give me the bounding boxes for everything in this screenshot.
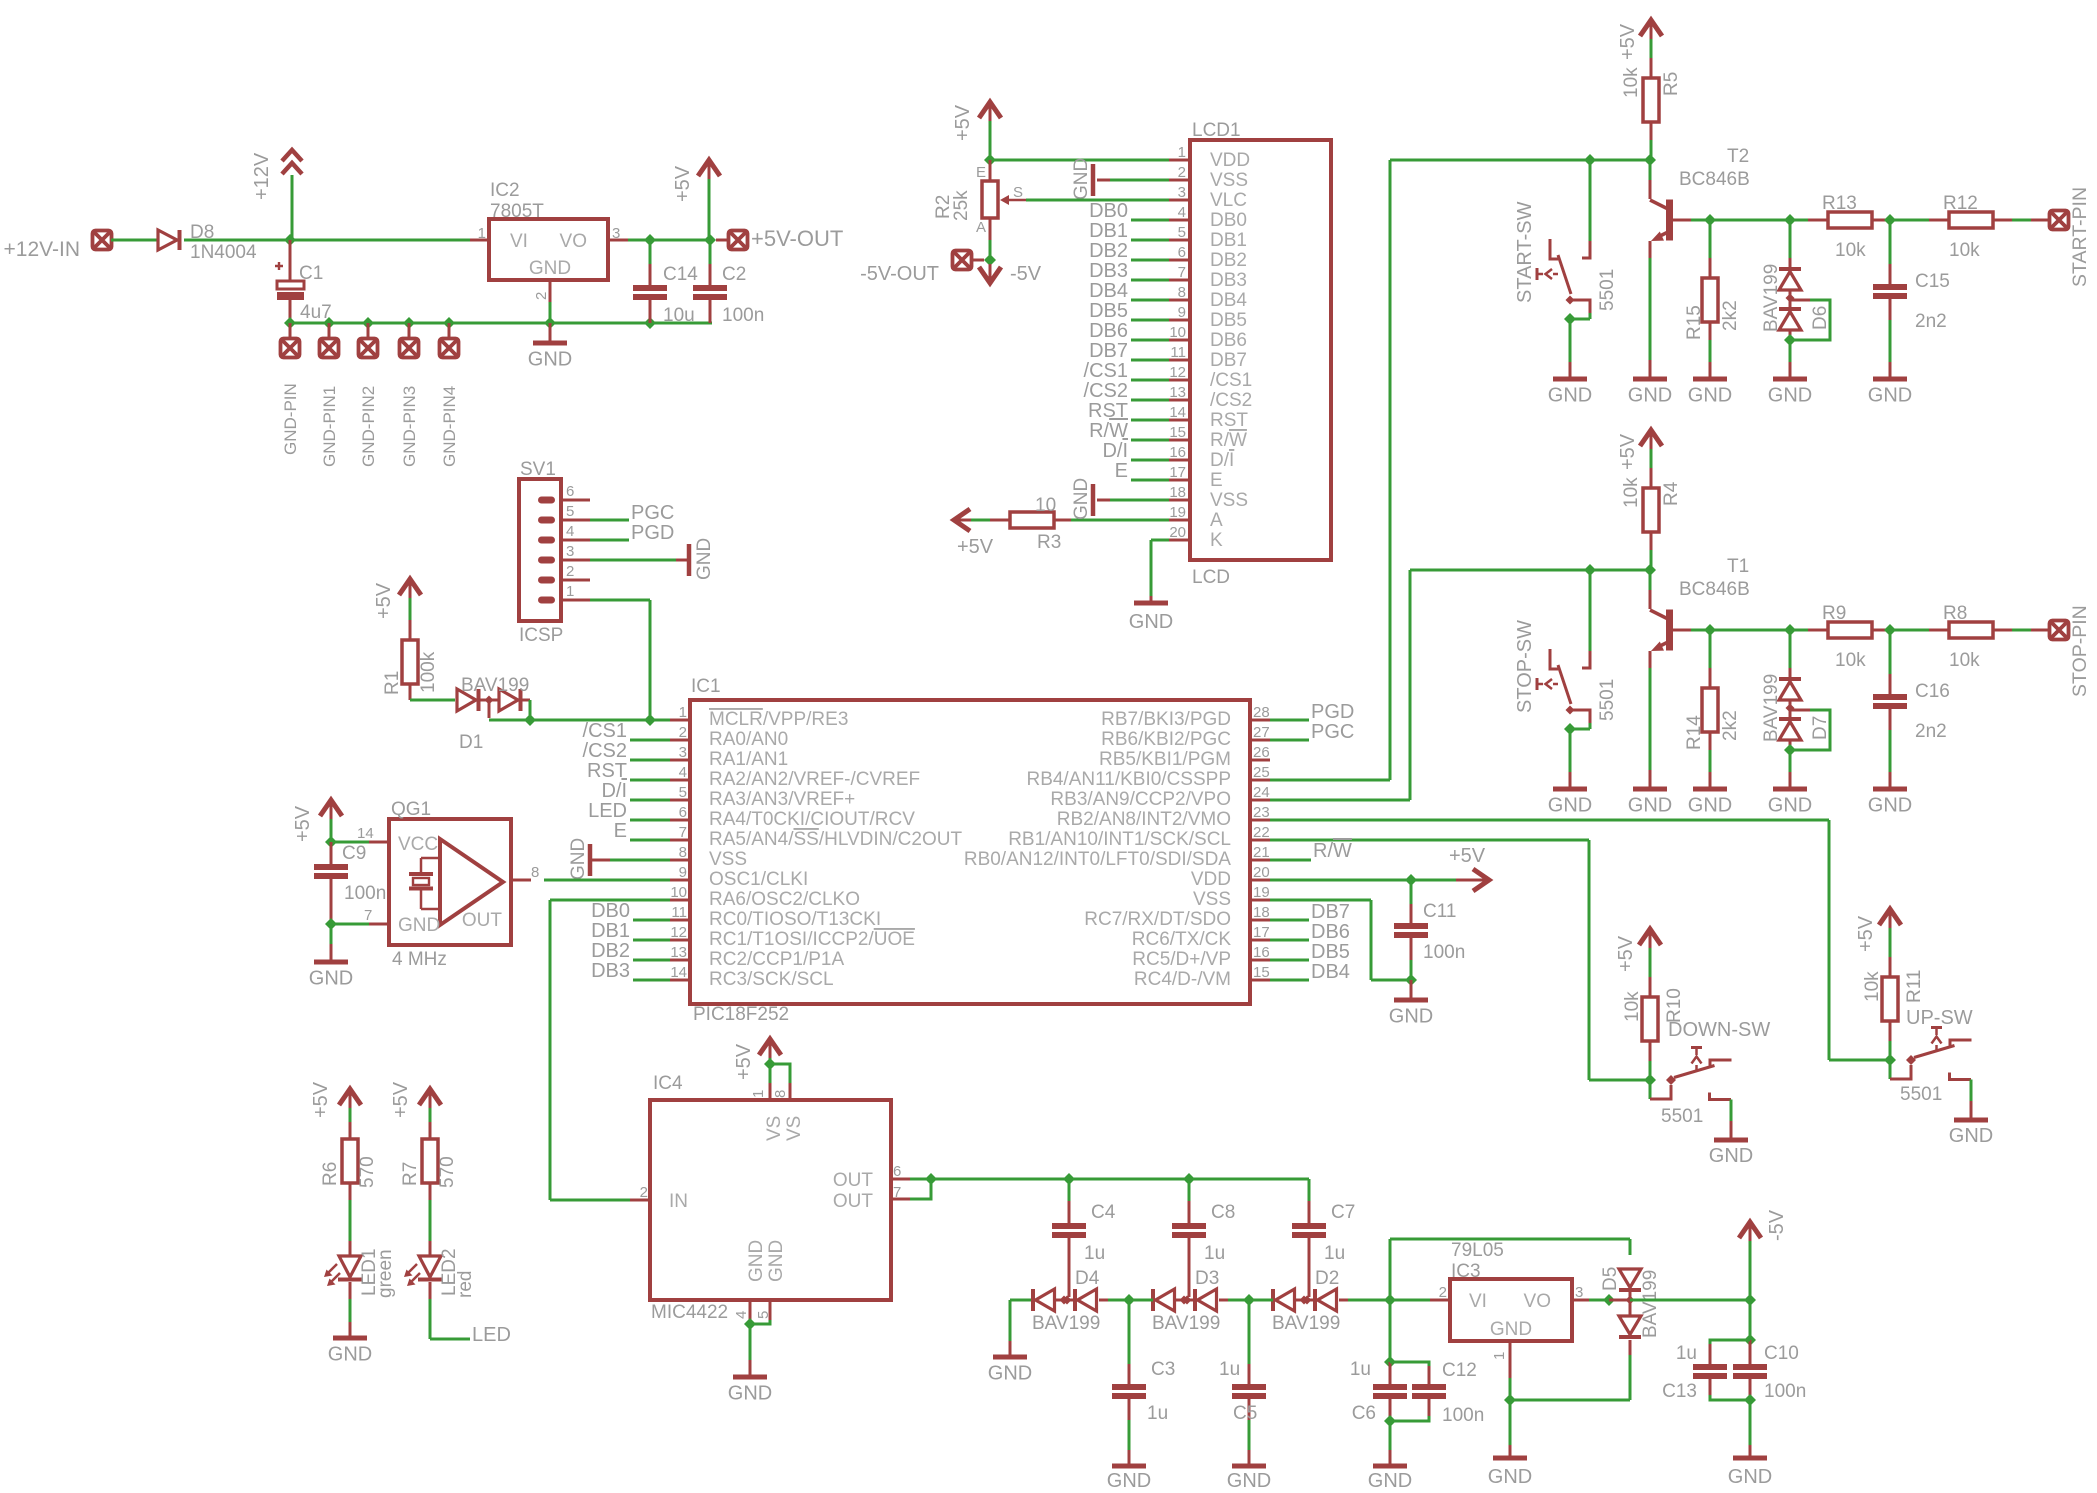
resistor R1 100k	[382, 598, 439, 700]
wire IC3 GND pin	[1509, 1341, 1512, 1400]
svg-text:100n: 100n	[344, 883, 386, 904]
junction C6 bottom	[1384, 1415, 1396, 1427]
ground GND at D4	[988, 1341, 1032, 1385]
junction C10 top	[1744, 1334, 1756, 1346]
label PGD	[631, 522, 674, 544]
svg-text:GND: GND	[1728, 1466, 1772, 1488]
svg-text:4: 4	[1178, 204, 1186, 221]
supply +5V at R10	[1615, 929, 1661, 972]
svg-text:PIC18F252: PIC18F252	[693, 1004, 789, 1025]
ground GND at LCD K	[1129, 603, 1173, 633]
svg-text:IC3: IC3	[1451, 1261, 1481, 1282]
wire D3 to D2	[1219, 1299, 1273, 1302]
svg-text:+5V-OUT: +5V-OUT	[751, 226, 843, 251]
wire pad to R2 bottom	[972, 259, 984, 262]
svg-text:3: 3	[1178, 184, 1186, 201]
supply -5V at R2	[979, 260, 1042, 285]
ground GND at T1 emitter	[1628, 789, 1672, 817]
svg-text:1u: 1u	[1324, 1243, 1345, 1264]
wire +12V-IN to D8	[111, 239, 157, 242]
label LCD net pin 12	[1084, 360, 1128, 382]
diode D6 BAV199	[1761, 220, 1831, 340]
svg-text:2: 2	[533, 292, 550, 300]
svg-text:OSC1/CLKI: OSC1/CLKI	[709, 869, 808, 890]
svg-text:1u: 1u	[1219, 1359, 1240, 1380]
svg-text:21: 21	[1253, 844, 1270, 861]
diode D7 BAV199	[1761, 630, 1831, 750]
wire LCD VSS pin18	[1097, 499, 1169, 502]
svg-text:GND: GND	[1548, 795, 1592, 817]
svg-text:-5V-OUT: -5V-OUT	[860, 263, 939, 285]
label LCD net pin 10	[1089, 320, 1128, 342]
svg-text:25k: 25k	[951, 190, 972, 221]
svg-text:79L05: 79L05	[1451, 1240, 1504, 1261]
svg-text:PGD: PGD	[631, 522, 674, 544]
svg-text:1: 1	[750, 1090, 767, 1098]
junction IC4 OUT	[925, 1173, 937, 1185]
svg-text:RST: RST	[1210, 410, 1248, 431]
svg-text:GND: GND	[1129, 611, 1173, 633]
svg-text:RA5/AN4/SS/HLVDIN/C2OUT: RA5/AN4/SS/HLVDIN/C2OUT	[709, 829, 962, 850]
svg-text:D6: D6	[1810, 306, 1831, 330]
svg-text:C1: C1	[299, 263, 323, 284]
svg-text:GND: GND	[1071, 478, 1092, 520]
svg-text:11: 11	[1170, 344, 1186, 361]
ground GND at C6	[1368, 1421, 1412, 1492]
svg-text:MCLR/VPP/RE3: MCLR/VPP/RE3	[709, 709, 848, 730]
label LCD net pin 8	[1089, 280, 1128, 302]
svg-text:10u: 10u	[663, 305, 695, 326]
svg-text:RC7/RX/DT/SDO: RC7/RX/DT/SDO	[1084, 909, 1231, 930]
diode D8 1N4004	[158, 222, 257, 263]
svg-text:PGD: PGD	[1311, 701, 1354, 723]
regulator IC3 79L05	[1439, 1240, 1584, 1360]
capacitor C4 1u	[1052, 1179, 1116, 1297]
capacitor C13 1u	[1662, 1340, 1750, 1402]
svg-text:1u: 1u	[1350, 1359, 1371, 1380]
ground GND at R14	[1688, 789, 1732, 817]
svg-text:R3: R3	[1037, 532, 1061, 553]
svg-text:DOWN-SW: DOWN-SW	[1668, 1019, 1770, 1041]
label net LED	[472, 1324, 511, 1346]
svg-text:DB6: DB6	[1089, 320, 1128, 342]
label net DB6 right	[1311, 921, 1350, 943]
svg-text:GND-PIN4: GND-PIN4	[440, 386, 459, 467]
label net at IC1 pin y=780	[587, 760, 627, 782]
svg-text:R/W: R/W	[1089, 420, 1128, 442]
svg-text:GND: GND	[1628, 795, 1672, 817]
ground GND at IC3	[1488, 1400, 1532, 1488]
wire LCD stub pin 7	[1131, 279, 1169, 282]
svg-text:DB6: DB6	[1210, 330, 1247, 351]
svg-text:RB4/AN11/KBI0/CSSPP: RB4/AN11/KBI0/CSSPP	[1026, 769, 1231, 790]
pad -5V-OUT	[860, 251, 971, 286]
svg-text:D7: D7	[1810, 716, 1831, 740]
svg-text:570: 570	[437, 1156, 458, 1188]
wire LCD stub pin 14	[1131, 419, 1169, 422]
label LCD net pin 6	[1089, 240, 1128, 262]
svg-text:2k2: 2k2	[1720, 710, 1741, 741]
wire LCD stub pin 17	[1131, 479, 1169, 482]
svg-text:5: 5	[755, 1311, 772, 1319]
svg-text:11: 11	[671, 904, 687, 921]
junction IC3 GND	[1504, 1394, 1516, 1406]
svg-text:DB3: DB3	[1089, 260, 1128, 282]
wire LCD stub pin 11	[1131, 359, 1169, 362]
svg-text:D/I: D/I	[1102, 440, 1128, 462]
wire IC3 VO	[1572, 1299, 1609, 1302]
svg-text:R13: R13	[1822, 193, 1857, 214]
svg-text:100n: 100n	[1442, 1405, 1484, 1426]
capacitor C10 100n	[1733, 1340, 1806, 1402]
svg-text:DB3: DB3	[1210, 270, 1247, 291]
svg-text:RB1/AN10/INT1/SCK/SCL: RB1/AN10/INT1/SCK/SCL	[1008, 829, 1231, 850]
svg-text:R1: R1	[382, 671, 403, 695]
pad GND-PIN3	[400, 323, 420, 467]
junction base node	[1704, 214, 1716, 226]
svg-text:23: 23	[1253, 804, 1270, 821]
svg-text:3: 3	[679, 744, 687, 761]
junction C10 bottom	[1744, 1394, 1756, 1406]
svg-text:GND: GND	[328, 1344, 372, 1366]
svg-text:+12V: +12V	[251, 152, 273, 200]
svg-text:2n2: 2n2	[1915, 311, 1947, 332]
wire pin 22 to DOWN-SW	[1270, 840, 1650, 1080]
svg-text:IN: IN	[669, 1191, 688, 1212]
svg-text:4: 4	[733, 1311, 750, 1319]
svg-text:C10: C10	[1764, 1343, 1799, 1364]
svg-text:T2: T2	[1727, 146, 1749, 167]
ground GND at C11	[1389, 980, 1433, 1028]
svg-text:GND: GND	[1071, 158, 1092, 200]
diode D1 BAV199	[457, 675, 530, 753]
svg-text:3: 3	[1575, 1284, 1583, 1301]
ground GND at LCD pin 18	[1071, 478, 1093, 520]
resistor R5 10k	[1621, 39, 1682, 160]
junction QG1 VCC	[325, 836, 337, 848]
ground GND at D6	[1768, 340, 1812, 407]
svg-text:15: 15	[1253, 964, 1270, 981]
wire LCD VSS pin2	[1097, 179, 1169, 182]
svg-text:GND: GND	[568, 838, 589, 880]
IC U1 PIC18F252 IC1	[670, 676, 1270, 1025]
wire D1 to IC1 pin 1	[489, 700, 690, 720]
svg-text:DB5: DB5	[1089, 300, 1128, 322]
wire VSS pin 19	[1270, 900, 1411, 980]
label net at IC1 pin y=820	[588, 800, 627, 822]
svg-text:8: 8	[1178, 284, 1186, 301]
svg-text:+5V: +5V	[1615, 935, 1637, 972]
ground GND at SV1	[689, 538, 715, 580]
junction LCD VDD	[984, 154, 996, 166]
svg-text:D3: D3	[1195, 1268, 1219, 1289]
svg-text:GND-PIN2: GND-PIN2	[359, 386, 378, 467]
svg-text:GND: GND	[1768, 385, 1812, 407]
label LCD net pin 11	[1089, 340, 1128, 362]
junction -5V-OUT	[984, 254, 996, 266]
svg-text:PGC: PGC	[631, 502, 674, 524]
label net DB0 at IC1	[591, 900, 630, 922]
svg-text:+5V: +5V	[952, 104, 974, 141]
wire IC1 pin 10 to IC4 IN	[550, 900, 670, 1200]
junction rail T1	[1584, 564, 1656, 576]
label net DB3 at IC1	[591, 960, 630, 982]
pad GND-PIN	[281, 323, 301, 455]
svg-text:GND: GND	[728, 1383, 772, 1405]
svg-text:GND: GND	[1949, 1125, 1993, 1147]
svg-text:DB0: DB0	[591, 900, 630, 922]
svg-text:+5V: +5V	[1617, 23, 1639, 60]
svg-text:+5V: +5V	[1449, 845, 1486, 867]
svg-text:+12V-IN: +12V-IN	[4, 238, 80, 261]
svg-text:25: 25	[1253, 764, 1270, 781]
svg-text:R10: R10	[1664, 988, 1685, 1023]
svg-text:D/I: D/I	[1210, 450, 1234, 471]
svg-text:-5V: -5V	[1010, 263, 1042, 285]
svg-text:LED: LED	[588, 800, 627, 822]
resistor R14 2k2	[1684, 630, 1741, 787]
svg-text:GND: GND	[529, 258, 571, 279]
junction UP-SW	[1884, 1054, 1896, 1066]
ground GND at C10	[1728, 1400, 1772, 1488]
svg-text:/CS2: /CS2	[1210, 390, 1252, 411]
wire net DB4 stub right	[1270, 979, 1309, 982]
svg-text:10: 10	[1169, 324, 1186, 341]
svg-text:DB0: DB0	[1089, 200, 1128, 222]
wire IC2 pin 2 to rail	[549, 280, 552, 323]
junction rail T2	[1584, 154, 1656, 166]
wire IC2 VO	[608, 239, 710, 242]
svg-text:BAV199: BAV199	[1272, 1313, 1340, 1334]
svg-text:A: A	[976, 219, 986, 236]
label net DB7 right	[1311, 901, 1350, 923]
wire PGC	[590, 519, 629, 522]
svg-text:VI: VI	[510, 231, 528, 252]
wire ground rail	[290, 322, 712, 325]
ground GND at R15	[1688, 379, 1732, 407]
wire VO to pad	[716, 239, 729, 242]
wire VDD pin 20	[1270, 879, 1472, 882]
wire net DB3 to IC1	[633, 979, 670, 982]
svg-text:10k: 10k	[1835, 240, 1866, 261]
svg-text:570: 570	[357, 1156, 378, 1188]
svg-text:1u: 1u	[1147, 1403, 1168, 1424]
svg-text:E: E	[1115, 460, 1128, 482]
wire D8 to IC2 pin 1	[184, 239, 489, 242]
svg-text:7: 7	[364, 907, 372, 924]
svg-text:1: 1	[1178, 144, 1186, 161]
capacitor C6 1u	[1350, 1359, 1407, 1424]
switch UP-SW 5501	[1890, 1007, 1973, 1105]
IC U2 MIC4422 IC4	[630, 1073, 910, 1323]
svg-text:10k: 10k	[1949, 650, 1980, 671]
svg-text:100n: 100n	[1423, 942, 1465, 963]
svg-text:GND: GND	[1548, 385, 1592, 407]
wire LED2 to LED net	[430, 1282, 470, 1339]
wire QG1 OUT to IC1 pin 9	[544, 879, 670, 882]
svg-text:SV1: SV1	[520, 459, 556, 480]
label PGC	[631, 502, 674, 524]
svg-text:OUT: OUT	[462, 910, 503, 931]
svg-text:10: 10	[670, 884, 687, 901]
label LCD net pin 13	[1084, 380, 1128, 402]
svg-text:/CS1: /CS1	[583, 720, 627, 742]
svg-text:100k: 100k	[418, 651, 439, 693]
svg-text:IC1: IC1	[691, 676, 721, 697]
ground GND at C5	[1227, 1466, 1271, 1492]
svg-text:RB0/AN12/INT0/LFT0/SDI/SDA: RB0/AN12/INT0/LFT0/SDI/SDA	[964, 849, 1231, 870]
svg-text:D4: D4	[1075, 1268, 1100, 1289]
svg-text:17: 17	[1169, 464, 1186, 481]
junction VO -5V	[1603, 1294, 1615, 1306]
label LCD net pin 7	[1089, 260, 1128, 282]
resistor R9 10k	[1822, 603, 1890, 671]
svg-text:RA2/AN2/VREF-/CVREF: RA2/AN2/VREF-/CVREF	[709, 769, 920, 790]
svg-text:4 MHz: 4 MHz	[392, 949, 447, 970]
ground GND at C3	[1107, 1466, 1151, 1492]
wire LCD stub pin 12	[1131, 379, 1169, 382]
svg-text:RA0/AN0: RA0/AN0	[709, 729, 788, 750]
wire LCD stub pin 10	[1131, 339, 1169, 342]
svg-text:DB2: DB2	[1210, 250, 1247, 271]
svg-text:GND: GND	[694, 538, 715, 580]
label PGD at IC1	[1311, 701, 1354, 723]
potentiometer R2 25k	[933, 160, 1026, 260]
ground GND at C9	[309, 924, 353, 990]
supply +5V at C9	[292, 800, 342, 842]
svg-text:BAV199: BAV199	[1761, 674, 1782, 742]
svg-text:+5V: +5V	[310, 1081, 332, 1118]
label net at IC1 pin y=800	[601, 780, 627, 802]
svg-text:QG1: QG1	[391, 799, 431, 820]
svg-text:VS: VS	[784, 1116, 805, 1141]
svg-text:RA4/T0CKI/CIOUT/RCV: RA4/T0CKI/CIOUT/RCV	[709, 809, 915, 830]
svg-text:10: 10	[1035, 495, 1056, 516]
svg-text:/CS1: /CS1	[1084, 360, 1128, 382]
label LCD net pin 15	[1089, 420, 1128, 442]
diode D5 BAV199	[1600, 1267, 1661, 1338]
LED LED2 red	[404, 1248, 476, 1298]
svg-text:1: 1	[566, 583, 574, 600]
capacitor C9 100n	[314, 842, 386, 924]
supply +5V out	[672, 160, 720, 240]
svg-text:12: 12	[1169, 364, 1186, 381]
junction VO	[644, 234, 716, 246]
junction C5	[1243, 1294, 1255, 1306]
svg-text:20: 20	[1169, 524, 1186, 541]
wire IC1 VSS pin 8	[592, 859, 670, 862]
svg-text:R15: R15	[1684, 305, 1705, 340]
pad GND-PIN4	[440, 323, 460, 467]
svg-text:GND: GND	[746, 1240, 767, 1282]
svg-text:green: green	[375, 1249, 396, 1298]
wire LCD stub pin 13	[1131, 399, 1169, 402]
wire LCD stub pin 9	[1131, 319, 1169, 322]
svg-text:2: 2	[679, 724, 687, 741]
ground GND under IC2	[528, 323, 572, 371]
svg-text:+5V: +5V	[672, 165, 694, 202]
svg-text:GND: GND	[1868, 385, 1912, 407]
junction base node	[1704, 624, 1716, 636]
pad GND-PIN2	[359, 323, 379, 467]
junction C16	[1884, 624, 1896, 636]
svg-text:10k: 10k	[1621, 477, 1642, 508]
ground GND at IC1 pin 8	[568, 838, 590, 880]
svg-text:14: 14	[1169, 404, 1186, 421]
svg-text:13: 13	[1169, 384, 1186, 401]
svg-text:+5V: +5V	[292, 805, 314, 842]
ground GND at DOWN-SW	[1709, 1140, 1753, 1167]
ground GND at LCD pin 2	[1071, 158, 1093, 200]
svg-text:R9: R9	[1822, 603, 1846, 624]
junction C11 gnd	[1405, 974, 1417, 986]
svg-text:START-PIN: START-PIN	[2069, 187, 2091, 287]
svg-text:1: 1	[1491, 1352, 1508, 1360]
svg-text:+5V: +5V	[733, 1043, 755, 1080]
svg-text:LED: LED	[472, 1324, 511, 1346]
svg-text:10k: 10k	[1621, 67, 1642, 98]
svg-text:8: 8	[772, 1090, 789, 1098]
capacitor C3 1u	[1112, 1300, 1175, 1464]
label LCD net pin 16	[1102, 440, 1128, 462]
wire pin 23 to UP-SW	[1270, 820, 1890, 1060]
svg-text:-5V: -5V	[1766, 1209, 1788, 1241]
junction MCLR	[524, 714, 656, 726]
svg-text:RB7/BKI3/PGD: RB7/BKI3/PGD	[1101, 709, 1231, 730]
svg-text:C4: C4	[1091, 1202, 1116, 1223]
svg-text:RA1/AN1: RA1/AN1	[709, 749, 788, 770]
label net at IC1 pin y=760	[583, 740, 627, 762]
wire PGD	[590, 539, 629, 542]
svg-text:18: 18	[1253, 904, 1270, 921]
svg-text:E: E	[614, 820, 627, 842]
junction IC4 GND	[744, 1318, 756, 1330]
svg-text:8: 8	[679, 844, 687, 861]
svg-text:22: 22	[1253, 824, 1270, 841]
capacitor C16 2n2	[1873, 630, 1950, 787]
svg-text:GND-PIN1: GND-PIN1	[320, 386, 339, 467]
svg-text:R4: R4	[1661, 481, 1682, 506]
svg-text:RA6/OSC2/CLKO: RA6/OSC2/CLKO	[709, 889, 860, 910]
svg-text:RB2/AN8/INT2/VMO: RB2/AN8/INT2/VMO	[1057, 809, 1231, 830]
ground GND at STOP-SW	[1548, 729, 1592, 817]
svg-text:1u: 1u	[1676, 1343, 1697, 1364]
svg-text:13: 13	[670, 944, 687, 961]
ground GND at T2 emitter	[1628, 379, 1672, 407]
svg-text:20: 20	[1253, 864, 1270, 881]
label R/W at IC1	[1313, 840, 1352, 862]
svg-text:6: 6	[679, 804, 687, 821]
svg-text:GND: GND	[1107, 1470, 1151, 1488]
svg-text:DB0: DB0	[1210, 210, 1247, 231]
svg-text:/CS2: /CS2	[1084, 380, 1128, 402]
junction C3	[1123, 1294, 1135, 1306]
wire R/W stub	[1270, 859, 1311, 862]
svg-text:16: 16	[1169, 444, 1186, 461]
ground GND at C16	[1868, 789, 1912, 817]
pad START-PIN	[2050, 187, 2092, 287]
svg-text:5: 5	[679, 784, 687, 801]
junction pump rail	[1063, 1173, 1195, 1185]
svg-text:C5: C5	[1233, 1403, 1257, 1424]
svg-text:S: S	[1013, 184, 1023, 201]
supply +5V at IC4	[733, 1039, 781, 1080]
svg-text:STOP-PIN: STOP-PIN	[2069, 605, 2091, 697]
svg-text:VSS: VSS	[1193, 889, 1231, 910]
wire R7 to LED2	[429, 1183, 432, 1256]
capacitor C5 1u	[1219, 1300, 1266, 1464]
wire rail T1	[1410, 569, 1650, 572]
